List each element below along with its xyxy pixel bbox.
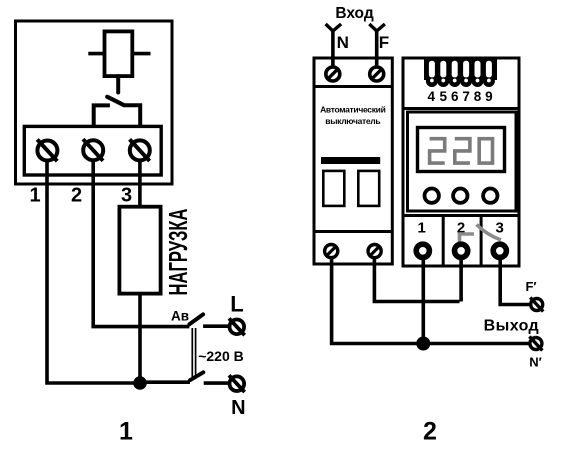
input arrow N: [326, 24, 342, 31]
svg-text:N: N: [231, 397, 245, 419]
wire terminal3 to load: [138, 161, 142, 207]
breaker bottom pole lever: [190, 372, 203, 380]
svg-text:Автоматический: Автоматический: [320, 105, 386, 115]
relay coil K1 body: [105, 31, 133, 76]
voltage relay body: [403, 58, 519, 266]
N screw terminal: [229, 375, 245, 392]
junction node N': [416, 337, 430, 351]
wire breaker N out to N' node: [332, 257, 530, 344]
svg-text:2: 2: [71, 185, 82, 207]
wire relay terminal 1 to N' node: [421, 257, 425, 344]
breaker top terminal divider: [314, 85, 392, 88]
breaker QF1 body: [314, 58, 392, 264]
breaker window left: [323, 171, 344, 206]
svg-text:L: L: [230, 292, 243, 317]
breaker bottom screw right: [368, 245, 381, 258]
breaker handle bar: [321, 157, 380, 164]
svg-text:N: N: [337, 33, 349, 52]
relay screw 2: [455, 244, 468, 257]
display digit 2 (second): [455, 139, 470, 163]
device outline box: [16, 21, 173, 184]
screw terminal 1: [37, 140, 57, 162]
svg-text:N′: N′: [529, 355, 542, 370]
load body: [119, 207, 160, 294]
breaker bottom screw left: [325, 245, 338, 258]
wire relay terminal 2 down: [459, 257, 463, 302]
wire bottom pole to N screw: [204, 381, 229, 385]
svg-text:F′: F′: [525, 279, 536, 294]
display bezel: [418, 128, 505, 172]
terminal strip: [24, 126, 161, 175]
wire breaker F out to relay terminal 2: [374, 257, 459, 302]
breaker top screw N: [326, 67, 340, 81]
svg-text:3: 3: [496, 220, 504, 237]
wire top pole to L screw: [203, 324, 229, 328]
breaker top pole lever: [189, 314, 203, 324]
junction node N: [133, 376, 147, 390]
svg-text:1: 1: [119, 418, 133, 446]
terminal comb block: [424, 58, 497, 87]
relay screw 1: [416, 244, 429, 257]
wire terminal1 to N node: [47, 161, 135, 383]
breaker bottom terminal divider: [314, 230, 392, 233]
wire relay terminal 3 to F' screw: [500, 257, 531, 305]
coil right lead: [132, 52, 150, 56]
relay bottom cell divider 2: [480, 216, 483, 267]
internal contact common leg (gray): [460, 234, 475, 244]
svg-text:2: 2: [423, 418, 437, 446]
switch S1 left fixed contact: [94, 105, 110, 126]
wire load to N node: [138, 294, 142, 383]
F' screw terminal: [530, 298, 543, 312]
svg-text:Выход: Выход: [484, 318, 539, 335]
svg-text:выключатель: выключатель: [325, 116, 380, 126]
relay screw 3: [493, 244, 506, 257]
relay bottom strip divider: [403, 214, 519, 217]
svg-text:1: 1: [418, 220, 426, 237]
screw terminal 3: [130, 139, 150, 161]
switch S1 right fixed contact: [123, 105, 140, 126]
svg-text:3: 3: [121, 185, 132, 207]
coil left lead: [88, 52, 104, 56]
svg-text:Вход: Вход: [335, 5, 373, 22]
relay bottom cell divider 1: [442, 216, 445, 267]
N' screw terminal: [529, 337, 542, 351]
switch S1 lever: [107, 97, 123, 105]
wire N node to breaker bottom pole: [140, 380, 190, 384]
display digit 0: [479, 139, 492, 163]
breaker top screw F: [370, 67, 384, 81]
relay face panel: [408, 112, 517, 211]
wire terminal2 to breaker top pole: [93, 161, 189, 327]
coil plunger stub: [116, 76, 120, 92]
L screw terminal: [229, 318, 245, 335]
svg-text:~220 В: ~220 В: [198, 348, 244, 364]
breaker linkage: [192, 328, 195, 377]
knob 3: [483, 189, 497, 203]
svg-text:Ав: Ав: [171, 309, 189, 324]
input wire F: [375, 30, 379, 68]
display digit 2 (first): [430, 139, 445, 163]
screw terminal 2: [83, 139, 103, 161]
svg-text:1: 1: [29, 185, 40, 207]
input arrow F: [369, 24, 385, 31]
knob 2: [453, 189, 467, 203]
relay top strip divider: [403, 107, 519, 110]
knob 1: [425, 189, 439, 203]
breaker window right: [358, 171, 379, 206]
svg-text:F: F: [379, 33, 389, 52]
input wire N: [331, 30, 335, 68]
internal contact lever (gray): [477, 225, 501, 241]
svg-text:НАГРУЗКА: НАГРУЗКА: [164, 209, 192, 296]
